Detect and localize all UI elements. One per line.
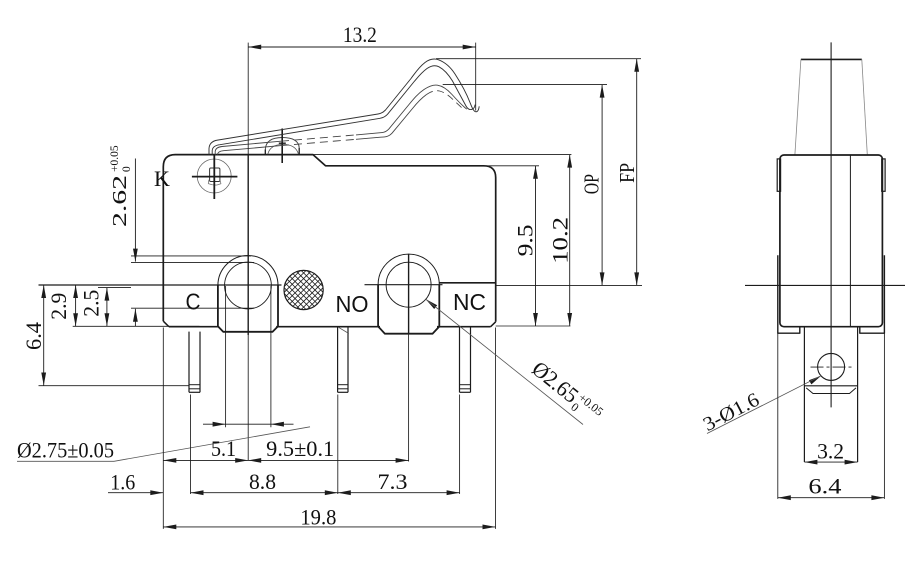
extension line pin NO left — [337, 395, 339, 495]
svg-text:7.3: 7.3 — [378, 469, 408, 494]
side view terminal hole dia 1.6 — [818, 353, 845, 380]
body bottom edge extension left — [73, 325, 200, 327]
text 2.62 tolerance — [109, 145, 133, 227]
dimension OP line — [601, 85, 603, 286]
svg-text:9.5±0.1: 9.5±0.1 — [266, 436, 334, 461]
side view internal edge — [849, 155, 851, 327]
dimension 7.3 — [338, 492, 460, 494]
side view right side plate — [860, 255, 885, 333]
terminal pin C — [188, 332, 190, 393]
extension line right (lever tip) — [475, 43, 477, 111]
dimension 1.6 — [108, 492, 163, 494]
svg-text:3.2: 3.2 — [817, 439, 844, 464]
svg-text:2.62: 2.62 — [109, 175, 131, 227]
side view left clip tab — [777, 159, 780, 191]
dimension 2.5 line — [106, 288, 108, 327]
side view left side plate — [778, 255, 800, 333]
switch body outline (front view) — [163, 155, 495, 322]
extension line left (hole C centre vertical) — [247, 43, 249, 155]
svg-text:9.5: 9.5 — [513, 224, 538, 256]
lever folded strip lower edge — [218, 146, 281, 155]
reference line 6.4 bottom — [39, 385, 190, 387]
dimension 8.8 — [191, 492, 338, 494]
terminal pin NC — [459, 327, 461, 393]
pivot pin K inner profile — [210, 168, 220, 182]
top edge extension line — [313, 154, 571, 156]
FP reference line (lever free position) — [436, 58, 641, 60]
tangent line hole C outer top — [131, 255, 251, 257]
side view datum line through body — [745, 284, 905, 286]
plunger dome on body top — [265, 138, 299, 150]
mounting hole NO inner circle dia 2.65 — [386, 262, 431, 307]
hole C diameter extension lines — [225, 286, 227, 427]
side view terminal tab edges — [803, 327, 805, 462]
reference line 2.5 top — [98, 287, 131, 289]
svg-text:C: C — [186, 289, 201, 315]
body right edge extension — [495, 328, 497, 529]
svg-text:5.1: 5.1 — [211, 436, 236, 461]
terminal pin NO — [337, 327, 339, 393]
svg-text:K: K — [154, 166, 170, 191]
lever arm top edge — [209, 59, 479, 154]
plunger centerline cross — [281, 129, 283, 164]
dimension 13.2 line — [248, 46, 476, 48]
dimension 2.62 with tolerance — [134, 159, 136, 262]
mounting hole C inner circle dia 2.75 — [225, 262, 272, 309]
terminal C boss below body — [218, 286, 278, 332]
lever arm bottom edge — [212, 66, 475, 155]
side view outer extension lines — [777, 333, 779, 499]
dimension 19.8 — [163, 526, 495, 528]
svg-text:10.2: 10.2 — [547, 217, 572, 264]
svg-text:FP: FP — [615, 163, 639, 183]
tangent line hole C inner bottom — [131, 307, 254, 309]
dimension 6.4 side — [778, 497, 885, 499]
extension line NO hole centre vertical — [408, 254, 410, 334]
svg-text:Ø2.65: Ø2.65 — [527, 356, 583, 408]
dimension 10.2 line — [569, 155, 571, 326]
dimension 2.9 line — [75, 285, 77, 326]
svg-text:NO: NO — [336, 291, 369, 317]
dimension 6.4 left line — [43, 285, 45, 386]
tangent line hole C inner top — [131, 261, 254, 263]
svg-text:OP: OP — [580, 174, 604, 194]
extension line pin C left — [190, 395, 192, 495]
side view hole centreline — [811, 366, 853, 368]
side view collar chamfer — [806, 388, 856, 394]
hole C centreline horizontal — [39, 284, 282, 286]
dimension 9.5 line — [535, 166, 537, 326]
side view collar line — [804, 385, 857, 387]
hole NO centreline horizontal — [365, 284, 443, 286]
svg-text:NC: NC — [453, 289, 486, 315]
svg-text:2.9: 2.9 — [46, 293, 71, 320]
svg-text:+0.05: +0.05 — [109, 145, 121, 172]
side view body outline — [780, 155, 883, 327]
dimension 3.2 — [804, 461, 857, 463]
svg-text:Ø2.75±0.05: Ø2.75±0.05 — [17, 438, 114, 463]
extension line pin NC left — [459, 395, 461, 495]
pivot K crosshair — [192, 176, 238, 178]
leader dia 2.75 — [17, 460, 114, 462]
side view push button — [801, 58, 862, 60]
svg-text:0: 0 — [121, 166, 133, 172]
svg-text:6.4: 6.4 — [808, 474, 841, 499]
body left edge extension — [162, 328, 164, 529]
svg-text:6.4: 6.4 — [21, 322, 46, 350]
svg-text:8.8: 8.8 — [249, 469, 276, 494]
dimension dia 2.75 arrows — [203, 423, 226, 425]
lever folded strip upper edge — [215, 141, 281, 154]
leader 3-dia1.6 — [809, 376, 821, 385]
dimension FP line — [636, 59, 638, 286]
svg-text:13.2: 13.2 — [343, 22, 377, 47]
side view vertical centreline — [830, 42, 832, 407]
datum line right of body — [496, 284, 642, 286]
svg-text:1.6: 1.6 — [110, 470, 135, 495]
NC chamber top edge — [439, 282, 495, 284]
dimension row 5.1 and 9.5 line — [163, 459, 408, 461]
svg-text:3-Ø1.6: 3-Ø1.6 — [700, 389, 763, 436]
terminal NO boss below body — [378, 285, 439, 334]
text dia 2.65 — [526, 356, 607, 428]
svg-text:19.8: 19.8 — [300, 505, 336, 530]
stepped edge extension line — [484, 165, 539, 167]
body bottom edge extension right — [496, 325, 571, 327]
mounting hole NO outer boss arc — [378, 254, 439, 287]
svg-text:2.5: 2.5 — [78, 290, 103, 317]
side view right clip tab — [882, 159, 885, 191]
mounting hole C outer boss arc — [218, 255, 278, 287]
pivot pin K outer circle — [197, 159, 231, 193]
OP reference line (operating position) — [443, 84, 607, 86]
text 3-dia1.6 — [700, 389, 763, 436]
leader dia 2.65 — [426, 299, 438, 309]
